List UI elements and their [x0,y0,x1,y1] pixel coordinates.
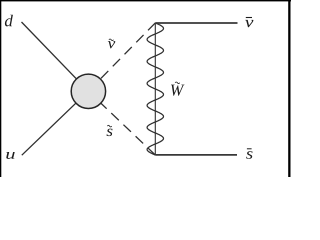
label W-tilde accent [175,82,180,84]
label s-tilde glyph [107,129,113,137]
label W-tilde glyph [171,85,185,96]
label d [5,15,13,27]
wino wavy line [147,23,163,155]
label nu-tilde glyph [108,41,116,48]
border top [0,0,291,1]
incoming quark line d [22,22,89,91]
outgoing antineutrino line [155,22,237,24]
outgoing antistrange line [155,154,237,156]
border left [0,0,1,177]
label nu-bar glyph [245,20,253,27]
label nu-bar accent [246,17,252,19]
dashed strange squark propagator [91,93,156,155]
wino straight line [154,23,156,155]
label s-tilde accent [107,125,111,127]
dashed sneutrino propagator [91,23,156,89]
label u [6,152,14,159]
interaction blob vertex [71,74,105,108]
label s-bar accent [247,148,252,150]
border right [288,0,290,177]
label s-bar glyph [246,151,253,159]
label nu-tilde accent [109,39,114,41]
incoming quark line u [22,91,89,155]
